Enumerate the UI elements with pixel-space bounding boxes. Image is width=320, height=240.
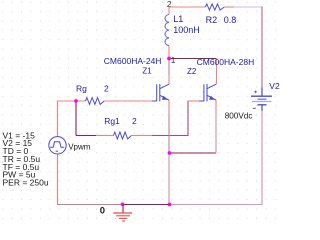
svg-text:800Vdc: 800Vdc — [225, 112, 253, 121]
svg-text:Z2: Z2 — [187, 67, 197, 76]
svg-text:1: 1 — [171, 55, 176, 65]
svg-text:0: 0 — [100, 206, 105, 217]
svg-text:2: 2 — [132, 116, 137, 126]
svg-text:PER = 250u: PER = 250u — [3, 178, 49, 188]
svg-text:2: 2 — [104, 84, 109, 94]
svg-text:L1: L1 — [173, 14, 183, 24]
svg-text:Z1: Z1 — [142, 66, 152, 75]
svg-text:0.8: 0.8 — [224, 15, 237, 25]
svg-text:V2: V2 — [269, 81, 280, 91]
svg-text:Rg: Rg — [76, 84, 87, 94]
svg-text:CM600HA-28H: CM600HA-28H — [197, 57, 255, 67]
svg-text:Vpwm: Vpwm — [68, 142, 91, 151]
svg-text:Rg1: Rg1 — [104, 116, 120, 126]
svg-text:2: 2 — [167, 0, 172, 9]
svg-text:CM600HA-24H: CM600HA-24H — [104, 56, 162, 66]
svg-text:100nH: 100nH — [173, 25, 200, 35]
svg-text:R2: R2 — [206, 15, 218, 25]
